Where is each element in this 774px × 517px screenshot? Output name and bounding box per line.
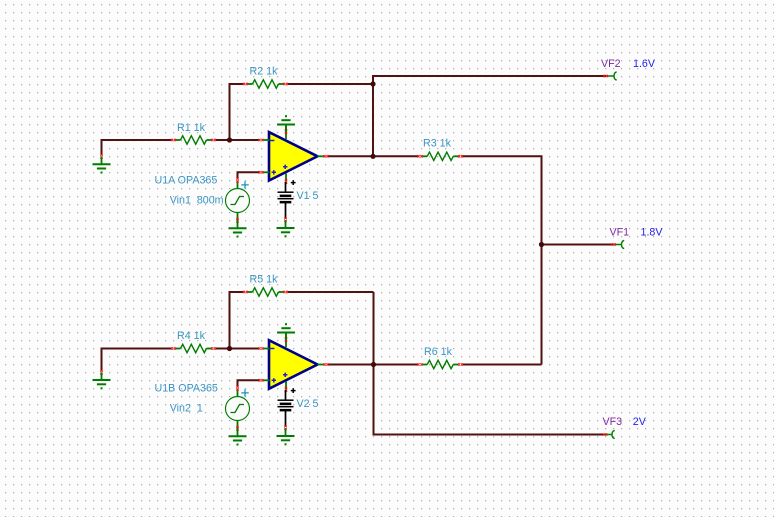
node: junction op-amp A output [370, 154, 375, 159]
ground above op-amp B (V- rail) [277, 323, 295, 340]
op-amp U1A OPA365 [155, 125, 329, 187]
wire: branch to VF2 terminal [373, 76, 606, 84]
svg-text:U1A OPA365: U1A OPA365 [155, 175, 218, 187]
battery V2 5 [278, 388, 319, 430]
node: junction R1/feedback A [227, 137, 232, 142]
terminal VF2 [601, 58, 656, 80]
ground under V1 [277, 221, 295, 238]
svg-text:R5 1k: R5 1k [250, 274, 279, 286]
svg-text:R3 1k: R3 1k [423, 138, 452, 150]
svg-text:2V: 2V [633, 416, 647, 428]
wire: op-amp B output to R6 [328, 364, 418, 366]
node: junction VF2 branch [370, 81, 375, 86]
wire: R3 right, down to VF1 node [463, 156, 542, 244]
ground under Vin1 [229, 221, 247, 238]
ground above op-amp A (V- rail) [277, 115, 295, 132]
voltage source Vin2 1 [170, 386, 250, 431]
ground under V2 [277, 429, 295, 446]
node: junction op-amp B output [371, 362, 376, 367]
ground at left input A [93, 154, 111, 174]
wire: feedback B down through output node to VF3 row [374, 292, 605, 435]
ground at left input B [93, 370, 111, 390]
wire: R5 right to feedback corner B [288, 291, 374, 293]
svg-text:1.6V: 1.6V [633, 58, 656, 70]
terminal VF1 [610, 226, 664, 248]
wire: R4 right to op-amp B inverting input [216, 348, 259, 350]
wire: R6 right to right column [463, 364, 542, 366]
battery V1 5 [278, 180, 319, 222]
svg-text:VF3: VF3 [603, 416, 623, 428]
svg-text:V1 5: V1 5 [297, 190, 319, 202]
resistor R3 [418, 138, 464, 161]
svg-text:R2 1k: R2 1k [250, 66, 279, 78]
svg-text:Vin1 800m: Vin1 800m [170, 195, 224, 207]
ground under Vin2 [229, 429, 247, 446]
resistor R6 [418, 346, 464, 369]
wire: Vin2 to op-amp B non-inverting input [238, 380, 261, 387]
wire: op-amp A output to R3 [328, 155, 418, 157]
resistor R5 [243, 274, 288, 297]
svg-text:R1 1k: R1 1k [177, 122, 206, 134]
node: junction R4/feedback B [227, 346, 232, 351]
svg-text:VF1: VF1 [610, 226, 630, 238]
wire: R1 right to op-amp A inverting input [216, 139, 259, 141]
wire: R2 right to feedback corner [288, 83, 373, 85]
svg-text:U1B OPA365: U1B OPA365 [155, 383, 218, 395]
svg-text:VF2: VF2 [601, 58, 621, 70]
svg-text:R6 1k: R6 1k [424, 346, 453, 358]
wire: feedback B up-left to R5 [230, 292, 244, 349]
terminal VF3 [602, 416, 646, 439]
resistor R1 [171, 122, 216, 144]
resistor R4 [171, 330, 216, 353]
op-amp U1B OPA365 [155, 333, 329, 395]
resistor R2 [243, 66, 288, 89]
node: junction VF1 [539, 242, 544, 247]
wire: left input A from ground to R1 [102, 140, 172, 155]
svg-text:R4 1k: R4 1k [177, 330, 206, 342]
svg-text:V2 5: V2 5 [297, 398, 319, 410]
svg-text:1.8V: 1.8V [641, 226, 664, 238]
wire: VF1 node down to R6 row [541, 245, 543, 365]
wire: VF1 node to terminal [542, 244, 614, 246]
wire: feedback A down to output node [372, 84, 374, 156]
wire: Vin1 to op-amp A non-inverting input [238, 172, 261, 179]
voltage source Vin1 800m [170, 178, 250, 223]
wire: left input B from ground to R4 [102, 349, 172, 371]
wire: feedback A up-left to R2 [230, 84, 244, 140]
svg-text:Vin2 1: Vin2 1 [170, 403, 203, 415]
